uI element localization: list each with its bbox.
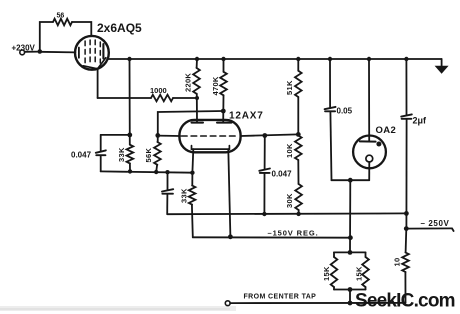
6AQ5 cathode beam [83,58,106,69]
svg-text:OA2: OA2 [376,125,397,136]
ground symbol [436,59,448,73]
junction dot divider tap [296,132,301,137]
svg-text:0.05: 0.05 [337,107,353,116]
svg-text:33K: 33K [117,147,126,162]
6AQ5 cathode lead down [97,69,99,98]
resistor 15K (right) [355,252,369,289]
svg-text:51K: 51K [285,80,294,95]
OA2 anode bar [360,140,376,142]
cathode bus wire y172 [101,171,193,172]
svg-text:33K: 33K [180,188,189,203]
resistor 30K [285,184,302,210]
junction dot right rail / y214 rail [404,211,409,216]
capacitor 0.047 (input) [71,135,106,172]
wire 6AQ5 cathode to resistor 1000 [98,97,151,99]
svg-text:30K: 30K [285,193,294,208]
wire terminal to node [25,51,40,53]
12AX7 right plate [217,122,232,124]
wire 12AX7 grid to divider tap [241,134,299,136]
svg-text:FROM CENTER TAP: FROM CENTER TAP [244,294,317,301]
wire ground rail down to 33K (x130) [129,59,131,145]
scan shadow bottom edge [0,306,236,311]
grid box wire (56K top to 470K lead) [158,111,224,135]
junction dot on center tap rail [348,301,353,306]
wire 33K down to -150V line [191,205,194,238]
15K pair bottom bracket [334,289,366,291]
wire right rail to resistor 10 [405,229,408,253]
tube V2 12AX7 envelope [179,120,240,152]
capacitor 0.047 (grid) [259,136,292,215]
terminal +230V input [12,44,36,55]
wire ground rail to 2uf cap [405,59,407,115]
junction dots on ground rail [127,57,408,61]
OA2 cathode circle [366,155,373,162]
resistor 51K [285,59,302,97]
svg-text:56: 56 [57,13,65,20]
svg-text:470K: 470K [211,76,220,95]
wire 33K bottom [129,163,131,171]
12AX7 grid (dashed) [182,135,240,137]
svg-text:0.047: 0.047 [272,170,293,179]
resistor 220K [184,59,200,94]
junction dots on y214 rail [262,212,301,217]
6AQ5 grids (dashed) [85,40,100,66]
svg-text:12AX7: 12AX7 [229,111,264,122]
12AX7 cathode [192,146,230,150]
wire y135 to 0.047 cap [101,134,130,136]
junction dots on y172 bus [128,169,195,175]
wire 0.05 to OA2 cathode [332,179,370,181]
junction dot OA2 cathode wire [348,178,353,183]
wire 2uf down right rail [405,119,407,228]
tube V3 OA2 envelope [353,136,386,169]
wire 1000 to plate lead node [173,97,197,99]
wire 10K to 30K [297,160,299,184]
wire 51K to tap [297,97,299,134]
svg-text:15K: 15K [322,266,331,281]
wire 10 to center tap rail [404,272,406,303]
svg-text:56K: 56K [144,148,153,163]
svg-text:0.047: 0.047 [71,151,92,160]
wire 470K to 12AX7 right plate [222,95,224,122]
wire 15K pair to center tap rail [349,290,351,304]
center tap rail wire [230,302,405,304]
junction dot grid-box wire on 470K lead [221,109,226,114]
terminal FROM CENTER TAP [225,301,230,306]
resistor 1000 [150,86,173,101]
wire node up to resistor 56 [40,22,53,52]
6AQ5 grid side bar [78,48,80,58]
junction dot cathode lead on -150V line [228,234,233,239]
capacitor 0.05 [325,59,353,180]
svg-text:2x6AQ5: 2x6AQ5 [97,21,142,35]
svg-text:10: 10 [393,258,402,267]
12AX7 left plate [192,122,204,124]
-250V stub wire [406,227,452,229]
resistor 10K [285,136,302,161]
svg-text:220K: 220K [184,73,193,92]
node junction at +230V [38,49,43,54]
wire grid left to 12AX7 [158,135,180,137]
wire resistor 56 to tube top [72,22,91,36]
resistor 10 [393,253,409,273]
svg-text:– 250V: – 250V [421,219,450,228]
svg-text:SeekIC.com: SeekIC.com [355,291,455,312]
OA2 cathode lead [368,162,370,180]
svg-text:1000: 1000 [150,86,167,95]
resistor 56 [53,13,72,26]
junction dot right rail / -250V stub [404,226,409,231]
-250V terminal tick [452,228,454,231]
svg-text:15K: 15K [355,266,364,281]
resistor 15K (left) [322,252,337,289]
junction dot 15K bottom [348,287,353,292]
OA2 gas dot [376,142,381,147]
12AX7 cathode lead left [191,149,194,173]
svg-text:10K: 10K [285,143,294,158]
wire node to 6AQ5 grid [40,51,76,54]
resistor 56K [144,135,161,172]
wire 220K to 12AX7 left plate [196,94,198,123]
capacitor 2uf [401,114,427,125]
12AX7 cathode lead right (to -150V line) [228,149,230,237]
svg-text:2μf: 2μf [413,116,428,126]
capacitor (cathode bypass, x167) [162,172,173,214]
wire OA2 cathode node down to 15K pair [349,180,351,252]
ground rail wire (top) [108,58,441,60]
-250V distribution rail y214 [167,212,406,215]
junction dot 15K top [348,250,353,255]
junction dot x130/y135 [127,133,132,138]
15K pair top bracket [334,251,366,253]
wire 30K to rail [298,210,300,214]
tube V1 2x6AQ5 envelope [75,36,109,70]
resistor 33K (left) [117,145,133,164]
junction dot 56K top / grid [155,133,160,138]
resistor 470K [211,59,227,96]
6AQ5 plate bar [102,44,104,59]
junction dot 0.047 tap [262,133,267,138]
resistor 33K (cathode, x192) [180,173,196,205]
junction dot 1000/plate lead [195,96,199,100]
OA2 anode lead from ground rail [368,59,370,141]
-150V REG output line [193,236,351,238]
svg-text:–150V REG.: –150V REG. [268,229,319,238]
junction dot -150V line end [348,235,353,240]
